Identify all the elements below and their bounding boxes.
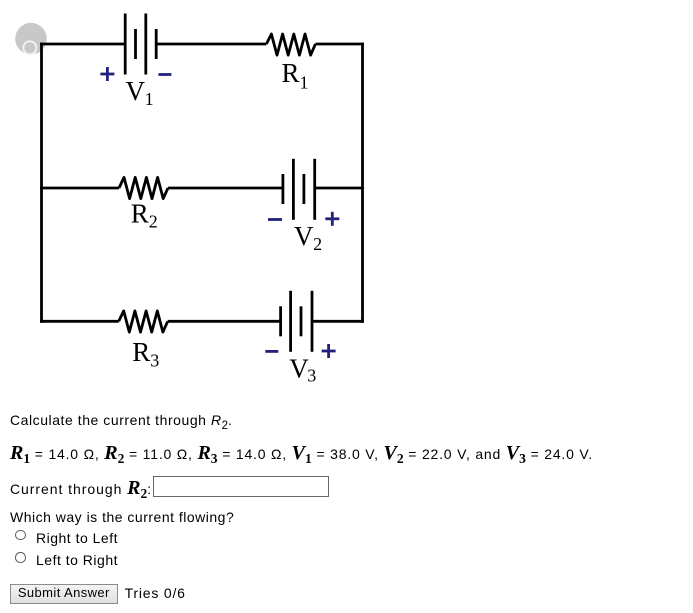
label R1	[282, 58, 309, 93]
svg-text:V: V	[126, 76, 146, 106]
resistor R2	[119, 177, 168, 198]
submit button	[10, 584, 118, 604]
svg-text:1: 1	[145, 89, 154, 109]
svg-text:R: R	[132, 337, 150, 367]
wire bottom branch left segment	[40, 320, 119, 323]
wire right vertical	[361, 43, 364, 323]
answer input box	[153, 476, 329, 497]
wire bottom branch middle segment	[168, 320, 281, 323]
radio Left to Right	[15, 552, 26, 563]
wire middle branch right segment	[315, 187, 364, 190]
radio Right to Left	[15, 530, 26, 541]
svg-text:2: 2	[149, 211, 158, 231]
circuit schematic drawing	[0, 0, 420, 400]
svg-text:R: R	[282, 58, 300, 88]
polarity minus V2	[268, 218, 282, 221]
wire middle branch left segment	[40, 187, 119, 190]
resistor R1	[266, 34, 315, 55]
wire bottom branch right segment	[312, 320, 364, 323]
resistor R3	[119, 311, 168, 332]
svg-text:V: V	[294, 221, 314, 251]
label R2	[131, 198, 158, 231]
svg-text:3: 3	[150, 350, 159, 370]
wire middle branch middle segment	[168, 187, 283, 190]
label R3	[132, 337, 159, 371]
battery V2	[283, 159, 315, 220]
wire top branch left segment	[40, 43, 125, 46]
answer prompt	[10, 481, 152, 497]
polarity plus V2	[325, 212, 339, 226]
svg-text:R: R	[131, 198, 149, 228]
label V2	[294, 221, 322, 254]
svg-text:2: 2	[313, 234, 322, 254]
polarity minus V1	[158, 73, 171, 76]
label V3	[289, 354, 316, 386]
label V1	[126, 76, 154, 109]
question line 1	[10, 413, 232, 429]
zoom icon	[15, 23, 47, 55]
question line 2	[10, 510, 234, 524]
tries counter	[125, 586, 186, 600]
polarity minus V3	[265, 350, 278, 353]
battery V3	[281, 291, 312, 352]
svg-text:V: V	[289, 354, 309, 384]
polarity plus V3	[322, 344, 336, 358]
wire top branch right segment	[315, 43, 364, 46]
given values line	[10, 446, 593, 462]
wire left vertical	[40, 43, 43, 323]
wire top branch middle segment	[156, 43, 266, 46]
svg-text:1: 1	[300, 73, 309, 93]
polarity plus V1	[100, 67, 114, 81]
svg-text:3: 3	[307, 366, 316, 386]
battery V1	[125, 14, 156, 75]
